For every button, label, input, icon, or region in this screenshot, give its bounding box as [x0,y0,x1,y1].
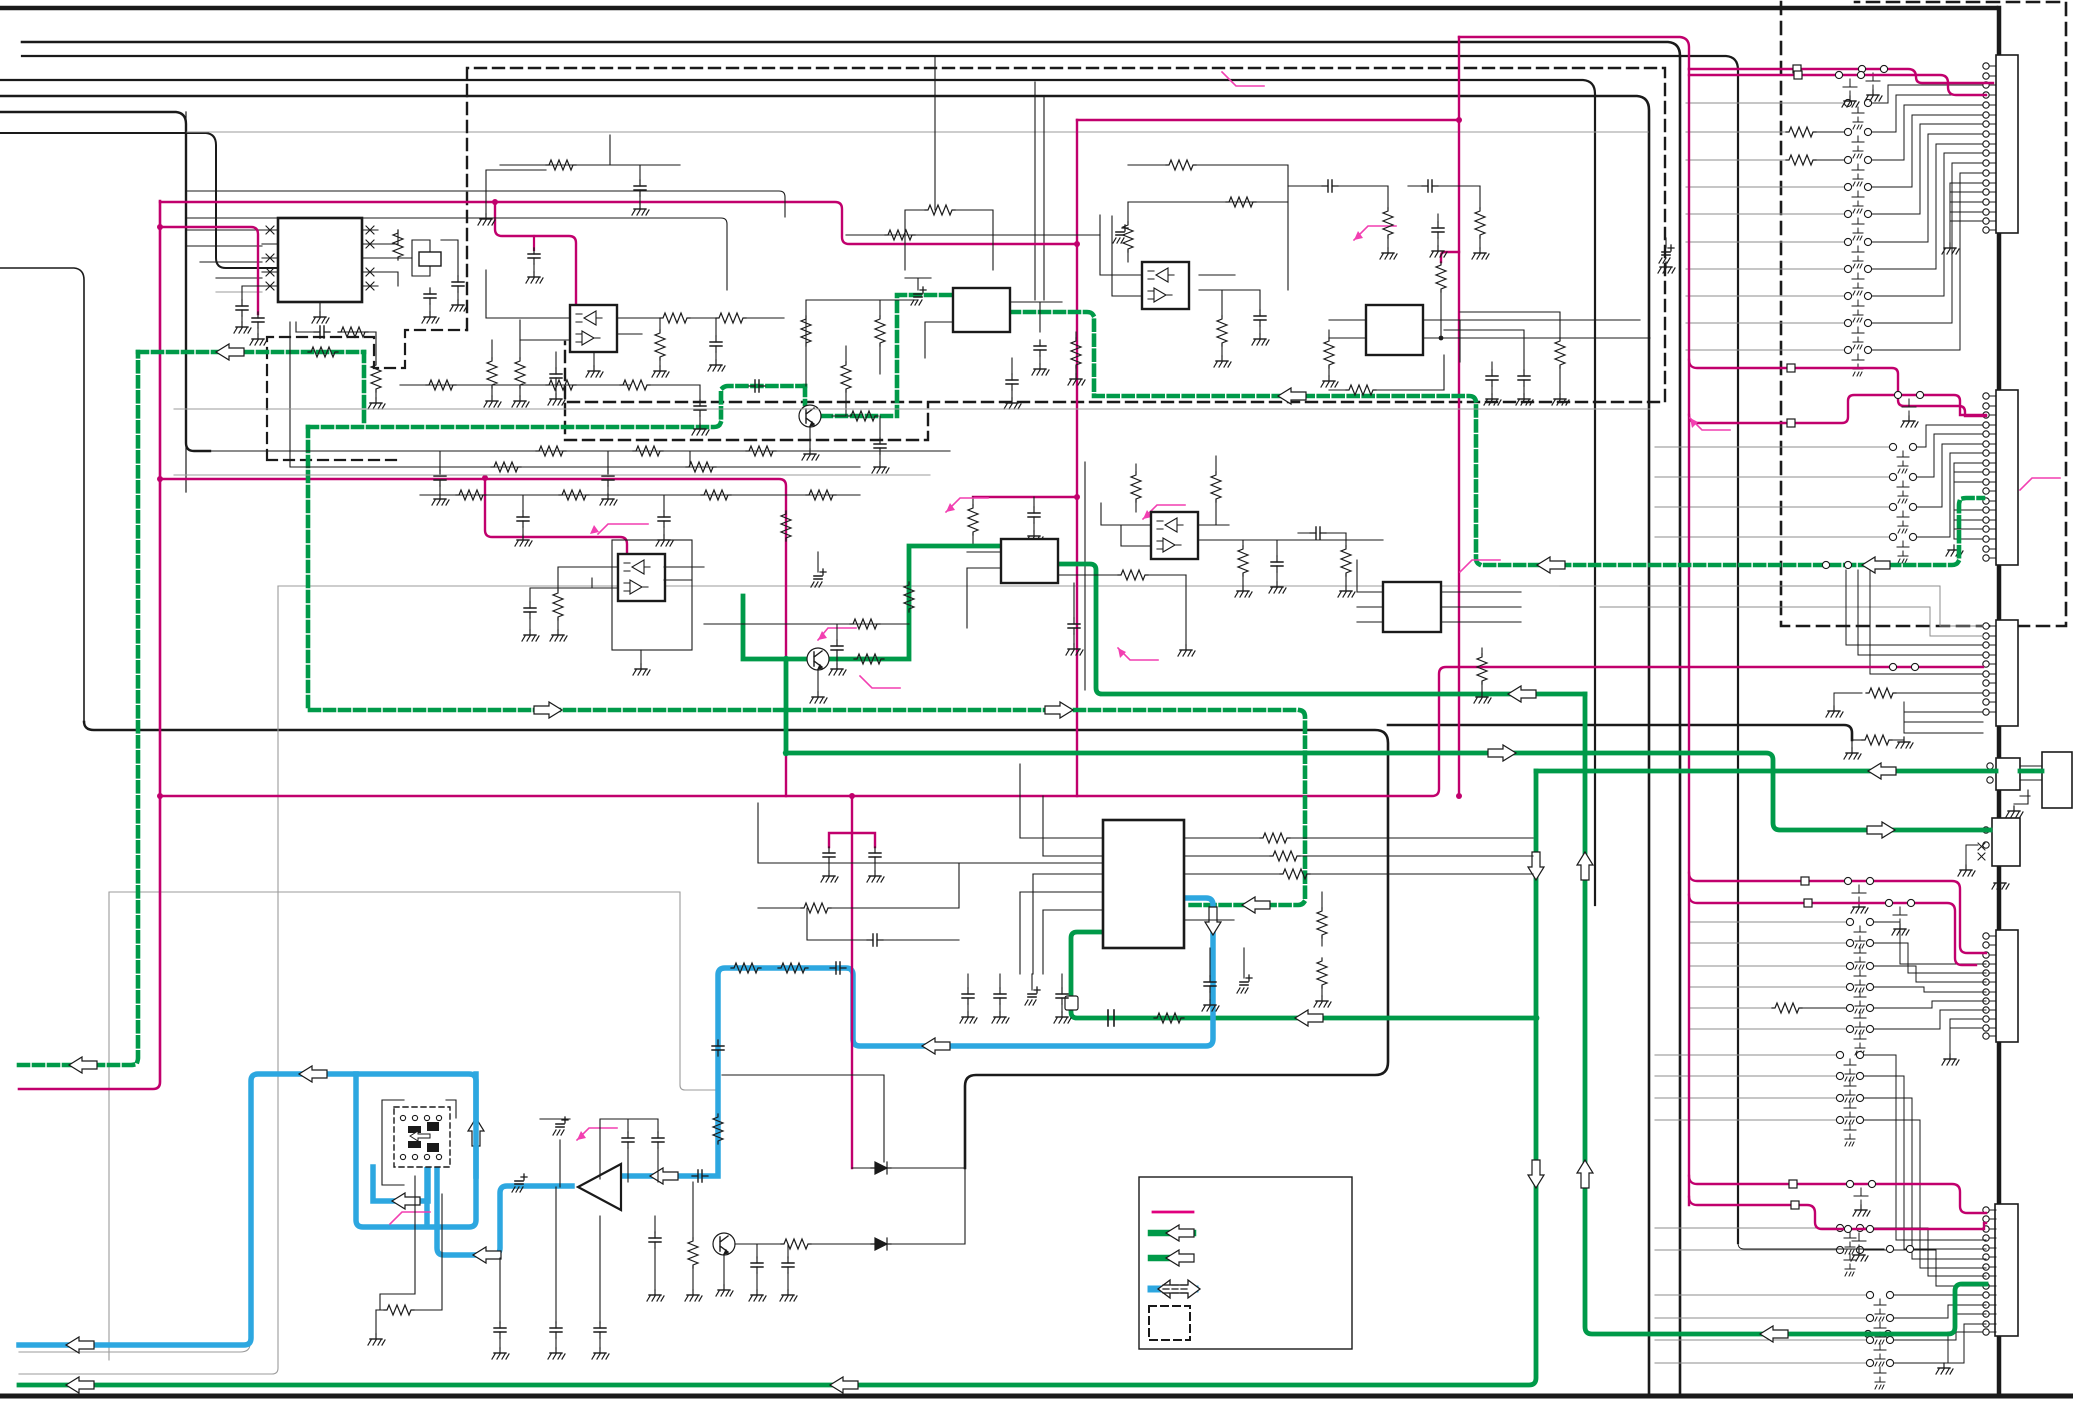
connector CN-B pins [1983,393,1996,561]
arrow down on blue x1213 [1205,907,1221,935]
cap C-a3 [751,1257,763,1273]
wire bus C [0,80,1595,905]
wire gray y475 [174,474,930,476]
cap C-bm1 [867,934,883,946]
right fan wires U9 [1184,838,1280,920]
jumper row B6 [1655,536,1889,538]
shield dashed box left [267,330,467,460]
net magenta branch y479 [160,479,786,796]
grounds under CN-E [1966,845,2000,878]
resistor R-u5a [1324,338,1334,368]
inline cap on blue y968 [830,962,846,974]
cap C-u4c [1322,180,1338,192]
diode D2 [871,1238,891,1250]
jumper row F9 [1690,1028,1846,1030]
jumper row F4 [1690,921,1846,923]
pink leader 13 [1222,72,1264,86]
net magenta mid row 2 [1689,395,1986,423]
cap C-u5b [1518,370,1530,386]
pink leader 8 [1460,560,1500,572]
capacitor C-u1 [242,286,262,300]
resistor R-u4a [1123,222,1133,252]
jumper row B3 [1655,446,1889,448]
net magenta branch U2a [495,202,576,305]
resistor row right of U2 [660,313,690,323]
IC U8 [1383,582,1441,632]
legend dashed box sample [1149,1306,1190,1340]
pink leader 5 [860,676,900,688]
resistor R-u6c [1341,546,1351,576]
capacitor C-u3a [1034,340,1046,356]
resistor R-q3 [801,316,811,346]
inline cap on dashed y386 [749,380,765,392]
net green dashed IC3 right [1010,312,1983,565]
ground row top-left [486,170,546,214]
cap C-u6b [1310,527,1326,539]
arrow on blue y1182 [650,1168,678,1184]
net magenta G row 1 [1689,1176,1986,1213]
wire thin y191 [186,191,785,217]
inline resistors on blue y968 [731,963,761,973]
caps above opamp A1 [622,1132,634,1148]
wire thin verticals top middle [935,56,1044,300]
net green IC2 branch [1071,932,1536,1018]
inline cap on blue x718 [712,1040,724,1056]
capacitor C-385 [694,400,706,416]
net green dashed to transistor T1 [803,386,808,404]
wire bus D [0,96,1649,1395]
resistor R-u9b [1270,851,1300,861]
resistor R-q2 vertical [875,316,885,346]
net magenta top row 1 [1459,37,1689,69]
capacitor C-497 [1028,507,1040,523]
capacitor C-x2 [452,276,464,292]
jumper row G3 [1655,1097,1836,1099]
jumper row A3 [1686,102,1844,104]
resistor R-u3b [1071,338,1081,368]
resistor R-u5b [1346,385,1376,395]
resistor R-467b [686,462,716,472]
wire bus A [22,42,1680,1395]
jumper row B4 [1655,476,1889,478]
pins CN-D [1987,763,1993,769]
inline pcap on blue op-amp input [512,1174,527,1192]
jumper row G8 [1655,1249,1836,1251]
junction dot green [1533,1015,1540,1022]
ground under U1 [319,302,321,312]
resistor R-385a [426,380,456,390]
cap C-u2b1 [524,602,536,618]
arrow on green y771 [1868,763,1896,779]
caps bottom row [494,1322,506,1338]
resistor R-495c [701,490,731,500]
resistor network row y332 [296,331,376,333]
ground under Q3 [723,1255,725,1285]
pink leader 7 [1354,226,1396,240]
opamp U2b pair [612,540,692,650]
net magenta F row 1 [1689,873,1986,953]
resistor R-u9a [1260,833,1290,843]
wire gray y409 [174,408,1650,410]
terminal on green IC2 branch [1065,996,1078,1010]
wire mid thick black horizontal [84,722,1388,1168]
transformer T1 dashed box [394,1107,450,1167]
resistor column right of U9 [1317,908,1327,938]
capacitor C-u3c [1006,374,1018,390]
transformer outer thin loop [382,1100,456,1185]
arrow left on green bottom bus [66,1377,94,1393]
jumper row A5 (resistor) [1686,159,1786,161]
resistor R-495d [806,490,836,500]
net green vertical 1536 [19,771,1536,1385]
arrow up on blue x476 [468,1118,484,1146]
caps right under U9 [1204,976,1216,992]
arrow down on green 1536 [1528,1160,1544,1188]
left fan wires U9 [1020,838,1103,910]
resistor R-mid2 [655,330,665,360]
arrow on blue inner rail [392,1193,420,1209]
opamp U2 pair [570,305,617,352]
IC U9 big [1103,820,1184,948]
arrow on green y694 [1508,686,1536,702]
arrow on dashed y565 a [1537,557,1565,573]
net green vertical 1585 down [1585,694,1868,1334]
wires U8 [1357,560,1521,622]
resistor R-495a [456,490,486,500]
net magenta branch IC1 [160,227,258,314]
resistor R-u8a [1477,654,1487,684]
net magenta hook IC5 [1441,252,1459,262]
arrow on dashed y565 b [1862,557,1890,573]
wire gray long mid 2 [278,585,1560,587]
capacitor C-q1 [874,438,886,454]
resistor inline magenta x786 [781,511,791,541]
resistor R-u4b [1217,316,1227,346]
wire gray bottom stub [19,1344,250,1352]
resistor R-165 [546,160,576,170]
connector CN-D body [1996,758,2020,790]
caps row under y451 [434,470,446,486]
jumper row H1 [1655,1294,1866,1296]
ground R-tf [375,1310,377,1334]
arrow right on green y830 [1867,822,1895,838]
jumper row A9 [1686,268,1844,270]
arrow on blue y1074 [299,1066,327,1082]
junction dots magenta [157,476,163,482]
inline resistor on green vertical 909 [904,582,914,612]
connector CN-A body [1996,55,2018,233]
IC U1 left pin x-marks [262,226,278,290]
net green dashed drop x364 [308,352,805,427]
jumper row A7 [1686,213,1844,215]
net magenta long mid horizontal [160,667,1983,796]
resistor R-u6a [1211,472,1221,502]
arrow on blue y1345 [66,1337,94,1353]
pcap C-u5c [1659,245,1674,263]
transformer pins bottom [400,1154,405,1159]
diode D1 [871,1162,891,1174]
wires opamp A1 [540,1119,656,1179]
arrow right on green y753 [1488,745,1516,761]
connector CN-G body [1995,1204,2018,1336]
wires U6 [1101,503,1383,546]
jumper row A12 [1686,349,1844,351]
resistor R-bm1 [801,903,831,913]
wires Q3 [735,1243,881,1245]
IC U7 (dolby) [1001,539,1058,583]
wire res row y495 [420,495,860,511]
inline pcap on blue y1182 [692,1170,708,1182]
wire bus B [22,56,1738,1243]
arrow left on dashed y905 [1242,897,1270,913]
jumper row G4 [1655,1119,1836,1121]
wire row y385 [400,384,700,386]
capacitor C-u2 [550,368,562,384]
resistor R-u4d [1383,208,1393,238]
wires U4 [1100,215,1259,296]
ground under CN-H [1936,1363,1953,1374]
net green dashed x308 drop [308,427,1305,905]
connector CN-D side box [2042,752,2072,808]
net blue transformer U loops [356,1074,572,1255]
wires U3 [925,302,1062,358]
shield dashed box top large [467,68,1665,402]
wire fan into CN-C [1560,570,1983,733]
pcap C-a1 [553,1117,568,1135]
resistor R-tf [384,1305,414,1315]
resistor R-451a [536,446,566,456]
jumper row H2 [1655,1317,1866,1319]
pink leader 11 [1690,418,1730,430]
resistor R-u2b1 [553,590,563,620]
legend green solid sample [1151,1230,1193,1237]
jumper row F7 [1690,986,1846,988]
wire res row y451 [200,451,950,471]
green link CN-D to side box [2020,769,2042,774]
resistor R-a vertical [371,362,381,392]
opamp A1 triangle [578,1164,621,1210]
inline resistor on dashed y416 [848,411,878,421]
resistor R-u6b [1238,546,1248,576]
pink leader 12 [2020,478,2060,490]
wire gray vertical left [19,586,278,1374]
transformer pins top [400,1115,405,1120]
magenta T caps [829,796,875,1168]
jumper row H3 [1655,1339,1866,1341]
wire top border thick [0,6,1996,11]
net magenta vertical 1459 [1458,37,1460,796]
ground under CN-D [2006,806,2023,817]
arrow on dashed y352 [216,344,244,360]
transistor Q1 [799,405,821,427]
inline capacitor on green y1018 [1108,1010,1114,1026]
jumper on dashed y565 [1822,561,1829,568]
ground under Q2 [817,670,819,692]
wire bottom border thick [0,1394,2073,1399]
resistor R-u9c [1280,869,1310,879]
wire thin left vertical 184 [185,112,187,492]
net magenta top horizontal [160,120,1459,244]
arrow down on green 1536 upper [1528,852,1544,880]
arrow left on green y1018 [1295,1010,1323,1026]
connector CN-A pins [1983,63,1996,233]
jumper circles on green y1334 [1864,1330,1871,1337]
capacitor C-x1 [424,288,436,304]
wire gray long mid 1 [186,131,1648,133]
capacitor C-u2a-branch [533,236,535,250]
cap C-624 [831,640,843,656]
resistor R-467a [491,462,521,472]
wire bus F [0,133,278,268]
crystal X1 [419,252,441,266]
arrow on blue y1046 [922,1038,950,1054]
net green dashed y352 [138,350,364,355]
resistor R-hook [1436,262,1446,292]
net green dashed T1 to IC3 [822,295,953,416]
resistor R-385b [546,380,576,390]
pink leader 3 [1143,505,1185,519]
resistor R-624 [850,619,880,629]
resistor R-q1 [841,362,851,392]
resistor R-q3b [781,1239,811,1249]
arrow right on dashed y710 b [1045,702,1073,718]
jumper row B5 [1655,506,1889,508]
resistor R-u2a [487,358,497,388]
arrow up on green 1585 [1577,1160,1593,1188]
jumper row F8 (resistor) [1690,1007,1772,1009]
net green y771 to CN-D [1536,769,1996,774]
capacitor C-mid1 [710,336,722,352]
inline resistor on blue x718 [713,1114,723,1144]
wires diodes [722,1075,965,1244]
connector CN-B lower pin stubs [1954,463,1983,539]
cap C-u4e [1432,222,1444,238]
resistor R-a1 [688,1238,698,1268]
wire bus G left [0,268,84,722]
ground u7 [1185,575,1187,645]
ground under Q1 [809,427,811,449]
net magenta main vertical left [19,201,160,1089]
arrow up on green 1585 upper [1577,852,1593,880]
cap C-u4d [1422,180,1438,192]
net magenta C-row [1889,663,1896,670]
net green dashed bottom-left [19,352,138,1065]
resistor row above U4 [1128,201,1288,203]
wire thin y218 [186,218,727,290]
pins CN-E [1983,827,1989,833]
wire q cluster [806,300,918,386]
wire row y624 [704,624,909,640]
connector CN-A lower pin bundle to ground [1950,183,1983,243]
cap C-a4 [782,1257,794,1273]
x-mark pins CN-E [1978,843,1985,860]
legend magenta sample [1153,1211,1193,1214]
wire res row y235 [846,234,1100,236]
net blue opamp out [621,898,1213,1176]
inline resistor on dashed y352 [308,347,338,357]
net magenta row y497 [973,496,1077,498]
ground under CN-C [1896,737,1913,748]
jumper row A11 [1686,322,1844,324]
resistor R-451c [746,446,776,456]
resistor R-u5c [1555,338,1565,368]
transistor Q3 [713,1233,735,1255]
connector CN-F body [1996,930,2018,1042]
pink leader 9 [577,1128,617,1140]
wires around opamp U2 [486,270,660,340]
pcap right of y495 row [811,569,826,587]
legend green dashed sample [1151,1255,1193,1262]
net green y753 long [786,753,1990,830]
wire F stub bundle [1950,1019,1983,1054]
IC U5 [1366,305,1423,355]
pink leader 4 [818,628,856,640]
caps under U9 [962,988,974,1004]
wire transformer to resistor [380,1176,415,1310]
connector CN-G pins [1983,1207,1996,1335]
resistor R-451b [633,446,663,456]
shield dashed box right tall [1781,2,2066,626]
connector CN-B body [1996,390,2018,565]
shield dashed box mid small [565,404,928,440]
resistor R-495b [559,490,589,500]
net magenta vertical right bus [1688,69,1690,1205]
transformer T1 windings [408,1126,421,1148]
capacitor under magenta branch [252,312,264,328]
pink leader 10 [390,1212,430,1224]
wire right border thick [1997,8,2002,1395]
connector CN-E body [1992,818,2020,866]
pink leader 2 [946,498,988,512]
wires U5 [1329,320,1650,390]
wire thin vertical x1085 [1084,462,1086,690]
IC U1 right pin x-marks [362,226,378,290]
pcap C-u4b [1113,225,1128,243]
net magenta branch U2b [485,478,627,554]
wire gray box bottom-left [109,892,716,1360]
inline resistor on green T2 right [854,654,884,664]
net blue main loop left [19,1074,476,1345]
resistor R-385c [620,380,650,390]
resistor stub under CN-C [1834,693,1862,706]
transistor Q2 [807,648,829,670]
pink leader 6 [1118,648,1158,660]
resistor R-u3a [925,205,955,215]
net green IC7 out to right bus [1058,564,1585,694]
jumper row A6 [1686,186,1844,188]
connector CN-F pins [1983,933,1996,1039]
pink leader 14 [1110,910,1150,922]
jumper row G1 [1655,1054,1836,1056]
wire bottommid y863 [758,803,1103,863]
cap C-165 [634,180,646,196]
net blue inner rail [373,1167,428,1201]
ground opamp U2 [593,352,595,366]
wires U2b [558,567,704,590]
IC U1 microcontroller [278,218,362,302]
resistor R-u4c [1226,197,1256,207]
wire bus E [0,112,210,451]
wire res row y467 [290,322,860,467]
jumper row A4 (resistor) [1686,131,1786,133]
net magenta top row 1b to pin [1689,69,1993,83]
net green riser to CN-G pin [1868,1284,1986,1334]
IC U3 [953,288,1010,332]
resistor R-u7 [1131,472,1141,502]
wire U1 right to resistor [378,230,412,286]
wire bus B tail into CN-G [1738,1243,1983,1249]
wire thin left horizontals to IC1 [186,230,262,278]
